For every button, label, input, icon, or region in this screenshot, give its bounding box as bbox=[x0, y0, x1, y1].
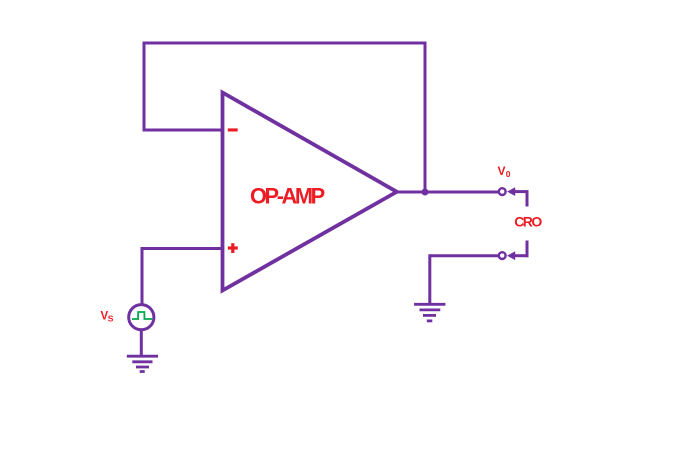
ground at source bbox=[127, 356, 158, 371]
terminal ground (open circle) bbox=[499, 252, 506, 259]
wire V0 probe to CRO bbox=[514, 190, 527, 193]
svg-text:CRO: CRO bbox=[514, 214, 542, 230]
wire source to ground bbox=[140, 330, 143, 356]
wire inverting input bbox=[143, 129, 224, 132]
op-amp U1 bbox=[223, 93, 397, 291]
source VS pulse waveform bbox=[132, 312, 152, 319]
wire CRO lower vertical bbox=[526, 241, 529, 258]
svg-text:S: S bbox=[108, 314, 114, 324]
svg-text:0: 0 bbox=[506, 169, 511, 179]
wire terminal to ground vertical branch bbox=[430, 254, 500, 257]
wire feedback left vertical bbox=[143, 43, 146, 132]
label minus (inverting pin) bbox=[228, 128, 238, 131]
wire feedback top horizontal bbox=[143, 42, 427, 45]
wire output bbox=[397, 191, 499, 194]
wire CRO lower horizontal bbox=[514, 254, 527, 257]
arrow probe at ground terminal bbox=[507, 251, 515, 260]
source VS bbox=[129, 305, 154, 330]
node output junction bbox=[422, 189, 429, 196]
ground at CRO bbox=[414, 304, 445, 321]
terminal V0 (open circle) bbox=[499, 188, 506, 195]
arrow probe at V0 bbox=[507, 187, 515, 196]
svg-text:V: V bbox=[498, 164, 506, 178]
wire feedback right vertical bbox=[424, 42, 427, 193]
wire noninverting input vertical bbox=[141, 247, 144, 304]
label plus (noninverting pin) bbox=[228, 243, 238, 253]
svg-text:OP-AMP: OP-AMP bbox=[250, 184, 325, 209]
wire noninverting input horizontal bbox=[141, 247, 224, 250]
